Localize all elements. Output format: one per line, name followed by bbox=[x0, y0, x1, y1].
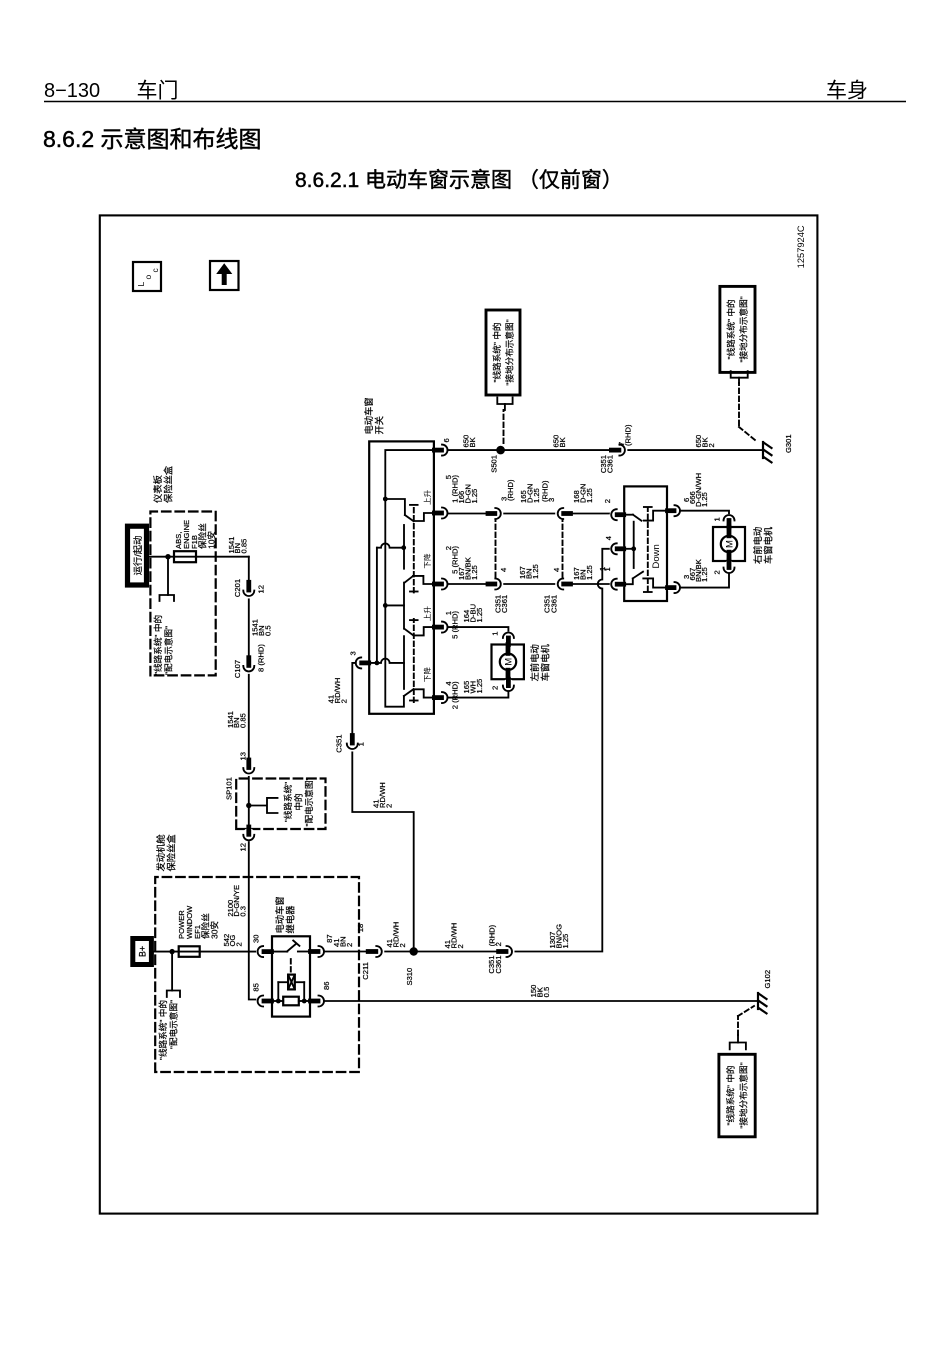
svg-text:"线路系统" 中的: "线路系统" 中的 bbox=[725, 299, 736, 359]
svg-text:C361: C361 bbox=[500, 595, 509, 613]
svg-text:1: 1 bbox=[357, 742, 366, 746]
connector relay pin 86 bbox=[311, 994, 326, 1008]
svg-text:18: 18 bbox=[356, 924, 365, 932]
wire: branch inside SP101 down to bracket bbox=[249, 805, 266, 807]
off-page bracket (G102 reference) bbox=[730, 1035, 746, 1049]
connector switch pin 3 (top) bbox=[354, 656, 369, 670]
svg-text:12: 12 bbox=[257, 585, 266, 593]
svg-text:85: 85 bbox=[252, 983, 261, 991]
wire label 41 RD/WH 2 (C211 to S310) bbox=[385, 922, 407, 948]
svg-text:1: 1 bbox=[603, 567, 612, 571]
svg-text:"配电示意图": "配电示意图" bbox=[303, 777, 314, 826]
wire label 1307 BN/OG 1.25 bbox=[548, 924, 570, 949]
power source label 运行/起动 (RUN/START) bbox=[128, 526, 147, 585]
svg-text:2: 2 bbox=[345, 943, 354, 947]
connector switch pin 5 bbox=[434, 506, 449, 520]
svg-text:右前电动: 右前电动 bbox=[752, 527, 763, 564]
svg-text:3: 3 bbox=[349, 651, 358, 655]
wire: switch pin 1 to LF motor pin 1 bbox=[448, 627, 509, 632]
connector relay pin 87 bbox=[311, 945, 326, 959]
wire label 168 D-GN 1.25 bbox=[572, 484, 594, 503]
off-page bracket (G301 reference) bbox=[731, 371, 748, 383]
window switch RH (Down) box bbox=[624, 486, 667, 601]
splice S310 bbox=[405, 947, 418, 985]
wire label 2100 D-GN/YE 0.3 bbox=[226, 885, 248, 917]
svg-text:5 (RHD): 5 (RHD) bbox=[451, 611, 460, 639]
wire: main 1541 rail from corner to relay coil branch bbox=[249, 557, 259, 1000]
pin 5 / 1 (RHD) labels bbox=[444, 475, 460, 503]
svg-text:13: 13 bbox=[239, 752, 248, 760]
svg-text:(RHD): (RHD) bbox=[506, 479, 515, 501]
wire label 167 BN 1.25 (second) bbox=[572, 565, 594, 580]
dashed wire to ground reference (G301) bbox=[739, 383, 755, 440]
svg-text:(RHD): (RHD) bbox=[623, 424, 632, 446]
wire: relay 87 output down via C211, S310, C351/C361 to window motors feed bbox=[324, 549, 612, 952]
connector relay pin 30 bbox=[256, 945, 271, 959]
svg-text:0.85: 0.85 bbox=[239, 713, 248, 728]
connector switch pin 2 bbox=[434, 577, 449, 591]
wire: branch to power distribution reference bbox=[167, 557, 169, 595]
svg-text:开关: 开关 bbox=[374, 416, 385, 435]
connector RH pin 4 bbox=[610, 542, 624, 556]
wire: switch pin 2 down to RH pin 1 (167) with hop bbox=[448, 583, 612, 585]
wire: B+ down to relay pin 30 bbox=[151, 951, 257, 953]
fuse F1B label bbox=[174, 520, 217, 549]
svg-text:1.25: 1.25 bbox=[531, 564, 540, 579]
contact bar S1 bbox=[403, 525, 405, 569]
diagram border frame bbox=[100, 215, 818, 1213]
wire label 166 D-GN 1.25 bbox=[457, 484, 479, 503]
svg-text:G301: G301 bbox=[784, 434, 793, 453]
splice S501 bbox=[490, 446, 505, 473]
connector LF motor pin 2 bbox=[502, 679, 515, 692]
svg-text:"线路系统" 中的: "线路系统" 中的 bbox=[157, 1000, 168, 1060]
svg-text:继电器: 继电器 bbox=[285, 905, 296, 934]
wire label 41 RD/WH 2 (S310 down) bbox=[443, 923, 465, 949]
svg-text:1.25: 1.25 bbox=[700, 492, 709, 507]
svg-text:C211: C211 bbox=[361, 962, 370, 980]
switch internal bus B (from pin 3) bbox=[376, 548, 378, 663]
wire label 167 BN 1.25 bbox=[518, 564, 540, 579]
RH mechanical dashed link bbox=[644, 507, 652, 592]
svg-text:下降: 下降 bbox=[422, 667, 432, 683]
switch contact 2 (down) bbox=[405, 576, 434, 584]
connector plane dashed row2 bbox=[562, 520, 564, 577]
node: feed junction contact bar S1 bbox=[401, 545, 406, 550]
connector RH pin 1 bbox=[610, 577, 624, 591]
svg-text:1: 1 bbox=[713, 517, 722, 521]
svg-text:12: 12 bbox=[239, 843, 248, 851]
svg-text:8.6.2.1 电动车窗示意图 （仅前窗）: 8.6.2.1 电动车窗示意图 （仅前窗） bbox=[295, 169, 623, 192]
svg-text:"配电示意图": "配电示意图" bbox=[168, 1000, 179, 1049]
switch contact 4 (down) bbox=[404, 689, 434, 698]
ground G102 bbox=[758, 993, 767, 1013]
svg-text:上升: 上升 bbox=[423, 606, 432, 622]
svg-text:C201: C201 bbox=[233, 579, 242, 597]
connector pin 12 below SP101 bbox=[242, 827, 255, 841]
fuse EF1 POWER WINDOW 30A bbox=[179, 946, 200, 957]
splice pack SP101 dashed box bbox=[236, 779, 325, 830]
svg-text:4: 4 bbox=[604, 536, 613, 540]
inline connector C351/C361 row1 on 167 wire bbox=[487, 576, 503, 592]
svg-text:1257924C: 1257924C bbox=[796, 225, 806, 268]
engine compartment fuse box (dashed) 发动机舱保险丝盒 bbox=[155, 877, 359, 1072]
svg-text:2 (RHD): 2 (RHD) bbox=[451, 681, 460, 709]
connector C351 C361 (motor feed) bbox=[499, 944, 515, 960]
wire: 150 BK from pin 86 down to G102 bbox=[324, 1000, 758, 1002]
wire label 164 D-BU 1.25 bbox=[462, 604, 484, 623]
svg-text:2: 2 bbox=[491, 686, 500, 690]
node: bus A junction to contact 3 bbox=[383, 603, 388, 608]
power window relay box 电动车窗继电器 bbox=[272, 936, 310, 1016]
svg-text:Down: Down bbox=[651, 544, 662, 568]
ground distribution reference box (bottom) bbox=[719, 1054, 755, 1137]
connector switch pin 1 bbox=[434, 620, 449, 634]
wire label 542 OG 2 bbox=[222, 934, 244, 947]
svg-text:车门: 车门 bbox=[137, 80, 179, 103]
svg-text:C361: C361 bbox=[550, 595, 559, 613]
connector RH pin 2 bbox=[610, 508, 624, 522]
wire label 41 RD/WH 2 (pin 3) bbox=[327, 678, 349, 704]
connector switch pin 4 bbox=[434, 691, 449, 705]
svg-text:"配电示意图": "配电示意图" bbox=[163, 626, 174, 675]
connector LF motor pin 1 bbox=[502, 632, 515, 645]
wire: RUN/START feed down to fuse F1B bbox=[146, 556, 249, 558]
relay contact 30-87 bbox=[272, 941, 310, 952]
instrument fuse box label bbox=[152, 465, 174, 503]
wire: RH pin 6 to RF motor pin 1 bbox=[680, 511, 729, 521]
connector C211 bbox=[368, 944, 384, 960]
switch contact 1 (up) bbox=[385, 499, 434, 521]
svg-text:上升: 上升 bbox=[423, 489, 432, 505]
wire: feed to contact 3 bar bbox=[385, 604, 404, 606]
svg-text:4: 4 bbox=[499, 568, 508, 572]
connector relay pin 85 bbox=[256, 994, 271, 1008]
fuse F1B ABS,ENGINE 10A bbox=[174, 551, 196, 562]
svg-text:0.85: 0.85 bbox=[240, 539, 249, 554]
svg-text:30安: 30安 bbox=[209, 920, 220, 939]
svg-text:SP101: SP101 bbox=[225, 777, 234, 800]
svg-text:车窗电机: 车窗电机 bbox=[763, 526, 774, 564]
svg-text:保险丝盒: 保险丝盒 bbox=[166, 834, 177, 872]
RF motor label bbox=[752, 526, 774, 564]
wire: 650 BK from switch pin 6 to G301 bbox=[448, 449, 763, 451]
dashed wire to ground reference (S501) bbox=[503, 410, 505, 443]
svg-text:C361: C361 bbox=[606, 455, 615, 473]
locator icon box bbox=[133, 262, 161, 291]
reference text: power distribution schematic bbox=[157, 1000, 179, 1060]
C351 C361 labels (650 BK) bbox=[599, 455, 615, 473]
connector switch pin 6 bbox=[434, 443, 449, 457]
relay 85-86 through wire bbox=[272, 1000, 310, 1002]
svg-text:1.25: 1.25 bbox=[585, 488, 594, 503]
wire label 650 BK (2) bbox=[552, 435, 567, 448]
pin 7 (RHD) labels bbox=[617, 424, 632, 446]
svg-text:仪表板: 仪表板 bbox=[152, 475, 163, 503]
wire: branch to power distribution reference bbox=[171, 952, 173, 991]
pin 6 / 666 D-GN/WH 1.25 labels bbox=[682, 473, 709, 507]
svg-text:2: 2 bbox=[603, 499, 612, 503]
C351 C361 labels (pair 2) bbox=[543, 595, 559, 613]
node: bus A junction to contact 1 bbox=[383, 497, 388, 502]
mechanical link left window rocker bbox=[410, 505, 418, 593]
svg-text:2: 2 bbox=[707, 443, 716, 447]
svg-text:2: 2 bbox=[398, 943, 407, 947]
svg-text:电动车窗: 电动车窗 bbox=[274, 896, 285, 933]
wire label 41 RD/WH 2 (drop) bbox=[372, 782, 394, 808]
inline connector C351/C361 row2 on 167 wire bbox=[555, 576, 571, 592]
inline connector C351/C361 row2 on D-GN wire bbox=[555, 506, 571, 522]
switch label bbox=[363, 397, 385, 434]
wire: LF motor pin 2 back to switch pin 4 bbox=[448, 692, 509, 698]
ground distribution reference box (S501) bbox=[486, 310, 520, 395]
svg-text:1.25: 1.25 bbox=[475, 679, 484, 694]
off-page bracket (to power distribution schematic) bbox=[160, 595, 175, 601]
svg-text:中的: 中的 bbox=[293, 793, 304, 810]
left front power window motor 左前电动车窗电机 bbox=[492, 645, 524, 680]
wire label 41 BN 2 bbox=[332, 936, 354, 947]
contact bar S2 bbox=[403, 583, 405, 629]
connector RH pin 6 (bottom) bbox=[668, 504, 682, 518]
engine fuse box label bbox=[155, 834, 177, 872]
svg-text:10安: 10安 bbox=[206, 530, 217, 549]
wire: bus B drop with hop over bus A bbox=[377, 543, 404, 547]
battery feed label B+ bbox=[133, 939, 152, 965]
svg-text:1.25: 1.25 bbox=[532, 488, 541, 503]
svg-text:o: o bbox=[143, 275, 153, 280]
svg-text:1.25: 1.25 bbox=[470, 489, 479, 504]
svg-text:BK: BK bbox=[558, 437, 567, 447]
svg-text:0.3: 0.3 bbox=[239, 906, 248, 917]
svg-text:M: M bbox=[725, 540, 736, 548]
pin 3 / 667 BN/BK 1.25 labels bbox=[682, 559, 709, 582]
svg-text:0.5: 0.5 bbox=[263, 625, 272, 636]
svg-text:S501: S501 bbox=[490, 455, 499, 473]
svg-text:L: L bbox=[136, 282, 146, 287]
svg-text:保险丝盒: 保险丝盒 bbox=[163, 465, 174, 503]
svg-text:S310: S310 bbox=[405, 968, 414, 986]
svg-text:1.25: 1.25 bbox=[700, 567, 709, 582]
wire label 167 BN/BK 1.25 bbox=[457, 557, 479, 580]
ground G301 bbox=[763, 442, 772, 462]
relay coil (crossed box) bbox=[288, 975, 295, 990]
svg-text:6: 6 bbox=[442, 438, 451, 442]
svg-text:0.5: 0.5 bbox=[542, 987, 551, 998]
RH switch contact upper (pin2 to pin6) bbox=[624, 511, 667, 521]
switch contact 3 (up) bbox=[404, 627, 434, 636]
svg-text:运行/起动: 运行/起动 bbox=[132, 536, 143, 576]
wire: switch pin 5 down to window switch RH pin 2 (166/165/168 D-GN) bbox=[448, 513, 617, 515]
dashed wire to ground reference (G102) bbox=[738, 1006, 754, 1035]
svg-text:BK: BK bbox=[468, 437, 477, 447]
connector RF motor pin 2 bbox=[723, 561, 736, 574]
C351 C361 labels (D-GN row pair 1) bbox=[494, 595, 510, 613]
off-page bracket (S501 reference) bbox=[497, 398, 512, 411]
svg-text:"线路系统" 中的: "线路系统" 中的 bbox=[725, 1065, 736, 1125]
wire: RH pin 3 to RF motor pin 2 bbox=[680, 574, 729, 588]
svg-text:C107: C107 bbox=[233, 660, 242, 678]
svg-text:发动机舱: 发动机舱 bbox=[155, 834, 166, 872]
fuse EF1 label bbox=[177, 905, 220, 939]
svg-text:下降: 下降 bbox=[422, 553, 432, 569]
node: junction inside SP101 bbox=[246, 803, 251, 808]
svg-text:电动车窗: 电动车窗 bbox=[363, 397, 374, 434]
svg-text:2: 2 bbox=[456, 944, 465, 948]
pin 3 (RHD) labels row1 bbox=[500, 479, 515, 501]
mechanical link right window rocker bbox=[410, 619, 418, 702]
relay mechanical dashed link bbox=[290, 957, 292, 972]
svg-text:车身: 车身 bbox=[826, 80, 868, 103]
svg-text:1.25: 1.25 bbox=[585, 565, 594, 580]
relay resistor bbox=[283, 997, 299, 1006]
svg-text:"线路系统" 中的: "线路系统" 中的 bbox=[491, 322, 502, 382]
pin 1 / 5 (RHD) labels bbox=[444, 611, 460, 639]
pin (RHD) 3 labels row2 bbox=[541, 480, 556, 502]
header rule bbox=[44, 101, 906, 103]
wire label 1541 BN 0.5 bbox=[251, 619, 273, 636]
off-page bracket inside SP101 bbox=[267, 798, 278, 813]
svg-text:2: 2 bbox=[384, 804, 393, 808]
svg-text:车窗电机: 车窗电机 bbox=[540, 644, 551, 682]
connector C351 C361 on 650 BK bbox=[611, 442, 627, 458]
svg-text:1.25: 1.25 bbox=[470, 565, 479, 580]
right front power window motor 右前电动车窗电机 bbox=[713, 527, 745, 561]
wire label 650 BK (1) bbox=[462, 435, 477, 448]
coil parallel taps bbox=[276, 982, 307, 1003]
power window switch box 电动车窗开关 bbox=[369, 441, 434, 713]
svg-text:86: 86 bbox=[322, 982, 331, 990]
reference text: power distribution schematic in wiring systems bbox=[152, 615, 174, 675]
svg-text:"接地分布示意图": "接地分布示意图" bbox=[504, 319, 515, 385]
pin 4 / 2 (RHD) labels bbox=[444, 681, 460, 709]
switch internal bus A (from pin 6) bbox=[385, 450, 434, 707]
svg-text:G102: G102 bbox=[763, 970, 772, 989]
svg-text:左前电动: 左前电动 bbox=[529, 644, 540, 681]
svg-text:"线路系统" 中的: "线路系统" 中的 bbox=[152, 615, 163, 675]
node: junction on feed bbox=[165, 554, 170, 559]
wire label 650 BK 2 bbox=[694, 435, 716, 448]
pin 2 / 5 (RHD) labels bbox=[444, 546, 460, 574]
svg-text:3: 3 bbox=[547, 498, 556, 502]
svg-text:2: 2 bbox=[713, 570, 722, 574]
LF motor label bbox=[529, 644, 551, 682]
wire label 165 WH 1.25 bbox=[462, 679, 484, 694]
connector C107 bbox=[241, 658, 257, 674]
reference text inside SP101 bbox=[282, 777, 314, 826]
wire: pin 3 internal with hop over bus A bbox=[369, 659, 404, 663]
svg-text:C351: C351 bbox=[335, 735, 344, 753]
relay label bbox=[274, 896, 296, 933]
connector C351 (pin 3 wire) bbox=[344, 736, 360, 752]
svg-text:2: 2 bbox=[494, 942, 503, 946]
wire label 165 D-GN 1.25 bbox=[519, 484, 541, 503]
RH switch pole bar bbox=[624, 522, 636, 568]
node: junction at B+ feed bbox=[169, 949, 174, 954]
svg-text:8−130: 8−130 bbox=[44, 80, 100, 102]
wire: 41 RD/WH from switch pin 3 via C351 down to S310 bbox=[352, 663, 413, 952]
svg-text:2: 2 bbox=[339, 699, 348, 703]
svg-text:1: 1 bbox=[491, 631, 500, 635]
svg-text:"接地分布示意图": "接地分布示意图" bbox=[738, 296, 749, 362]
forward direction arrow icon bbox=[210, 261, 239, 290]
svg-text:"线路系统": "线路系统" bbox=[282, 782, 293, 822]
connector RF motor pin 1 bbox=[723, 514, 736, 527]
inline connector C351/C361 row1 on D-GN wire bbox=[487, 506, 503, 522]
wire label 1541 BN 0.85 (second) bbox=[226, 711, 248, 728]
connector pin 13 at SP101 bbox=[241, 760, 257, 776]
svg-text:2: 2 bbox=[235, 942, 244, 946]
contact bar S3 bbox=[403, 636, 405, 689]
pin (RHD) 2 labels bbox=[488, 924, 503, 946]
node: bus B tap on pin 3 wire bbox=[375, 661, 380, 666]
svg-text:M: M bbox=[504, 658, 515, 666]
svg-text:"接地分布示意图": "接地分布示意图" bbox=[738, 1062, 749, 1128]
wire label 1541 BN 0.85 bbox=[227, 537, 249, 554]
svg-text:8.6.2 示意图和布线图: 8.6.2 示意图和布线图 bbox=[43, 126, 262, 152]
RH switch contact lower (pin1 to pin3) bbox=[624, 572, 667, 588]
svg-text:8 (RHD): 8 (RHD) bbox=[257, 644, 266, 672]
svg-text:1.25: 1.25 bbox=[561, 934, 570, 949]
svg-text:30: 30 bbox=[252, 935, 261, 943]
wire label 150 BK 0.5 bbox=[529, 985, 551, 998]
connector RH pin 3 (bottom) bbox=[668, 581, 682, 595]
svg-text:B+: B+ bbox=[138, 946, 148, 957]
svg-text:C361: C361 bbox=[494, 956, 503, 974]
svg-text:4: 4 bbox=[552, 568, 561, 572]
off-page bracket (engine box) bbox=[167, 991, 180, 998]
C351 C361 labels bbox=[487, 956, 503, 974]
connector C201 bbox=[241, 582, 257, 598]
svg-text:1.25: 1.25 bbox=[475, 608, 484, 623]
connector plane dashed row1 bbox=[495, 520, 497, 577]
ground distribution reference box (G301) bbox=[720, 286, 755, 372]
instrument panel fuse box (dashed) 仪表板保险丝盒 bbox=[150, 512, 215, 676]
